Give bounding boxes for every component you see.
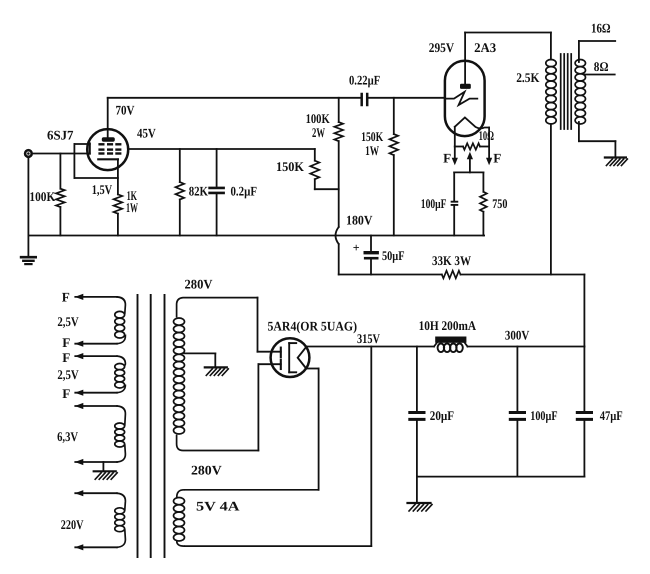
svg-text:2,5V: 2,5V	[57, 367, 79, 382]
svg-text:2A3: 2A3	[474, 40, 496, 55]
svg-text:47µF: 47µF	[600, 408, 623, 423]
svg-text:F: F	[493, 151, 501, 166]
svg-text:8Ω: 8Ω	[594, 59, 609, 74]
svg-text:150K: 150K	[361, 129, 384, 144]
svg-text:100µF: 100µF	[421, 196, 447, 211]
svg-text:6,3V: 6,3V	[57, 429, 78, 444]
svg-text:750: 750	[492, 196, 508, 211]
svg-text:2W: 2W	[312, 125, 325, 140]
svg-text:10H 200mA: 10H 200mA	[419, 318, 477, 333]
svg-text:33K 3W: 33K 3W	[432, 253, 471, 268]
svg-text:0.22µF: 0.22µF	[349, 72, 380, 87]
svg-text:F: F	[62, 350, 70, 365]
svg-text:5AR4(OR 5UAG): 5AR4(OR 5UAG)	[268, 318, 358, 333]
svg-text:220V: 220V	[61, 517, 84, 532]
svg-text:5V 4A: 5V 4A	[196, 498, 240, 513]
svg-text:50µF: 50µF	[382, 248, 405, 263]
svg-text:100K: 100K	[306, 111, 331, 126]
svg-text:F: F	[62, 289, 70, 304]
svg-text:1W: 1W	[365, 143, 379, 158]
svg-text:6SJ7: 6SJ7	[47, 128, 74, 143]
svg-text:2,5V: 2,5V	[57, 314, 79, 329]
svg-text:1,5V: 1,5V	[92, 182, 113, 197]
svg-text:280V: 280V	[191, 462, 222, 477]
svg-text:F: F	[62, 335, 70, 350]
svg-text:1W: 1W	[126, 200, 138, 215]
svg-text:+: +	[353, 241, 360, 255]
svg-text:2.5K: 2.5K	[516, 70, 540, 85]
svg-text:10Ω: 10Ω	[479, 128, 494, 143]
svg-text:82K: 82K	[189, 184, 209, 199]
svg-text:150K: 150K	[276, 159, 305, 174]
svg-text:70V: 70V	[116, 103, 135, 118]
svg-text:F: F	[443, 151, 451, 166]
svg-text:100µF: 100µF	[530, 408, 557, 423]
svg-text:295V: 295V	[429, 40, 455, 55]
svg-text:300V: 300V	[505, 327, 530, 342]
svg-text:0.2µF: 0.2µF	[231, 184, 258, 199]
svg-text:180V: 180V	[346, 213, 373, 228]
svg-text:315V: 315V	[357, 331, 380, 346]
svg-text:100K: 100K	[29, 189, 56, 204]
svg-text:F: F	[62, 386, 70, 401]
svg-text:45V: 45V	[137, 126, 156, 141]
svg-text:280V: 280V	[185, 276, 213, 291]
svg-text:20µF: 20µF	[430, 408, 454, 423]
svg-text:16Ω: 16Ω	[591, 21, 611, 36]
